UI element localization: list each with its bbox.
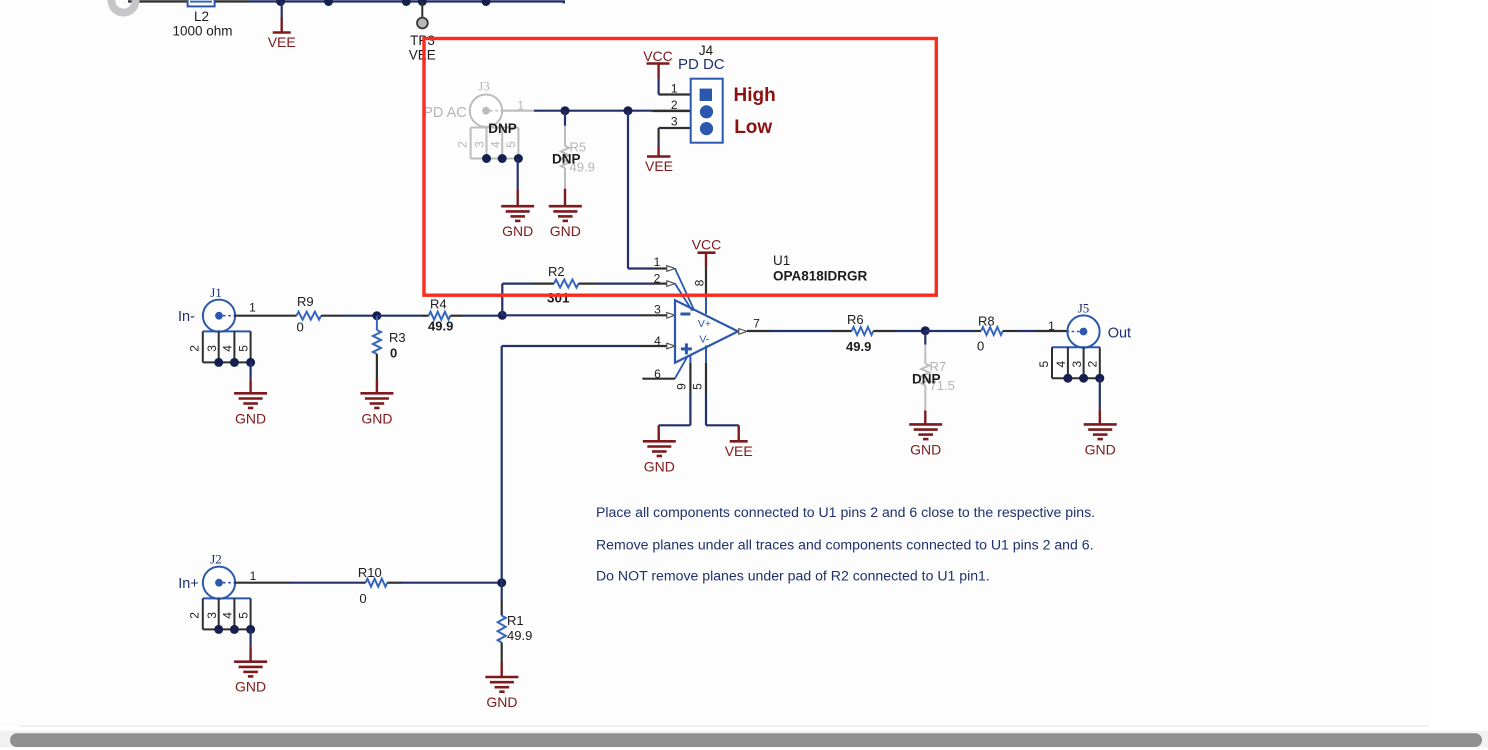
wire VEE top rail [128, 1, 565, 3]
svg-text:49.9: 49.9 [428, 319, 453, 334]
svg-text:3: 3 [654, 303, 661, 317]
label DNP (R7) [912, 372, 941, 387]
svg-text:R3: R3 [389, 330, 406, 345]
resistor R3 [373, 316, 406, 394]
wire node to U1 pin 4 [502, 346, 667, 583]
U1 pin number labels [654, 255, 761, 390]
wire PD AC net [502, 110, 691, 112]
J5 pad footprint [1037, 347, 1105, 383]
svg-text:R8: R8 [978, 314, 995, 329]
svg-text:2: 2 [654, 272, 661, 286]
power VEE (top rail) [268, 2, 296, 51]
svg-text:5: 5 [504, 141, 518, 148]
svg-text:Do NOT remove planes under pad: Do NOT remove planes under pad of R2 con… [596, 568, 990, 584]
svg-text:DNP: DNP [488, 121, 517, 136]
U1 V+ label [698, 318, 711, 330]
svg-text:8: 8 [693, 279, 707, 286]
svg-text:J3: J3 [478, 79, 490, 94]
U1 refdes [773, 253, 790, 268]
J1 pad footprint [188, 331, 256, 367]
ground (J3) [501, 206, 534, 239]
resistor R5 (DNP) [561, 111, 595, 207]
red highlight box [424, 39, 936, 296]
svg-text:5: 5 [236, 612, 250, 619]
svg-text:5: 5 [236, 345, 250, 352]
wire R9 to R3 junction [344, 315, 377, 317]
junction on top rail [324, 0, 333, 6]
svg-text:301: 301 [547, 291, 570, 306]
U1 plus symbol [681, 343, 692, 354]
wire J3 pin5 to ground [517, 159, 519, 207]
junction on top rail [276, 0, 285, 6]
resistor R10 [358, 565, 402, 606]
svg-text:2: 2 [671, 98, 678, 112]
wire U1 pin 9 to ground [659, 425, 691, 441]
svg-text:GND: GND [361, 410, 392, 426]
svg-text:In-: In- [178, 309, 195, 325]
svg-text:R6: R6 [847, 312, 864, 327]
svg-text:VEE: VEE [268, 34, 296, 50]
inductor L2 [172, 0, 232, 38]
svg-text:GND: GND [1085, 441, 1116, 457]
svg-text:3: 3 [205, 345, 219, 352]
svg-text:R2: R2 [548, 264, 565, 279]
resistor R6 [846, 312, 894, 354]
svg-text:OPA818IDRGR: OPA818IDRGR [773, 269, 868, 284]
svg-text:4: 4 [221, 345, 235, 352]
svg-text:Remove planes under all traces: Remove planes under all traces and compo… [596, 537, 1094, 553]
junction (U1 pin1 tap) [624, 106, 633, 115]
svg-text:R4: R4 [430, 297, 447, 312]
wire node to R2 [502, 284, 554, 316]
note line 2 [596, 537, 1094, 553]
resistor R2 [547, 264, 598, 306]
svg-text:1: 1 [1048, 319, 1055, 333]
svg-text:4: 4 [1054, 361, 1068, 368]
svg-text:3: 3 [473, 141, 487, 148]
resistor R4 [428, 297, 463, 334]
connector ring (cut off at top) [111, 0, 135, 13]
scrollbar thumb [10, 733, 1482, 747]
svg-text:7: 7 [753, 317, 760, 331]
svg-text:R1: R1 [507, 613, 524, 628]
svg-text:3: 3 [1070, 361, 1084, 368]
svg-text:High: High [734, 85, 776, 106]
svg-text:VCC: VCC [692, 236, 722, 252]
J3 pad footprint (DNP) [455, 128, 523, 164]
svg-text:V-: V- [699, 334, 709, 346]
ground (U1) [643, 441, 676, 474]
wire R8 to J5 [1017, 330, 1067, 332]
svg-text:1: 1 [654, 255, 661, 269]
svg-text:DNP: DNP [552, 152, 581, 167]
junction (R5 tap) [561, 106, 570, 115]
U1 pin 4 arrow [667, 343, 675, 349]
resistor R7 (DNP) [921, 331, 955, 425]
svg-text:PD DC: PD DC [678, 56, 725, 73]
svg-text:1: 1 [250, 569, 257, 583]
U1 value [773, 269, 868, 284]
label Low [734, 117, 772, 138]
ground (R3) [360, 393, 393, 426]
ground (J2) [234, 662, 267, 695]
svg-text:0: 0 [390, 346, 397, 361]
svg-text:6: 6 [654, 367, 661, 381]
svg-text:L2: L2 [194, 9, 209, 24]
svg-text:Out: Out [1108, 325, 1131, 341]
test point TP3 [409, 2, 436, 63]
label High [734, 85, 776, 106]
label DNP (J3) [488, 121, 517, 136]
wire R6 to output node [894, 330, 925, 332]
resistor R1 [498, 583, 533, 677]
svg-text:4: 4 [221, 612, 235, 619]
svg-text:Low: Low [734, 117, 772, 138]
wire U1 pin 7 to R6 [747, 330, 852, 332]
junction (non-inverting node) [497, 578, 506, 587]
svg-text:GND: GND [235, 679, 266, 695]
power VCC (U1 pin 8) [692, 236, 722, 268]
svg-text:2: 2 [455, 141, 469, 148]
connector J4 PD DC [653, 43, 725, 143]
wire node to R8 [925, 330, 981, 332]
scrollbar track [0, 731, 1488, 748]
U1 pin 6 lead [642, 378, 675, 380]
wire J5 pin5 to ground [1099, 378, 1101, 424]
svg-text:R9: R9 [297, 294, 314, 309]
wire R3 junction to R4 [377, 315, 429, 317]
junction (inverting node) [498, 311, 507, 320]
ground (R1) [485, 677, 518, 710]
svg-text:2: 2 [1086, 361, 1100, 368]
svg-text:VEE: VEE [409, 47, 436, 62]
power VEE (U1 pin 5) [706, 425, 753, 459]
svg-text:Place all components connected: Place all components connected to U1 pin… [596, 504, 1095, 520]
ground (J1) [234, 393, 267, 426]
svg-text:In+: In+ [178, 576, 199, 592]
wire J2 pin5 to ground [250, 629, 252, 661]
svg-text:GND: GND [910, 441, 941, 457]
svg-text:2: 2 [188, 345, 202, 352]
J2 pad footprint [188, 598, 256, 634]
svg-text:GND: GND [502, 223, 533, 239]
wire R4 to U1 pin3 node [463, 315, 502, 317]
ground (R7) [909, 424, 942, 457]
svg-text:R10: R10 [358, 565, 382, 580]
svg-text:GND: GND [550, 223, 581, 239]
U1 pin 8 (V+) line [705, 268, 707, 425]
wire J1 to R9 [235, 315, 297, 317]
connector J2 In+ (BNC) [178, 552, 256, 599]
svg-text:0: 0 [977, 339, 984, 354]
wire PD DC net to U1 pin 1 [628, 111, 667, 269]
U1 minus symbol [680, 313, 690, 316]
svg-text:GND: GND [644, 458, 675, 474]
junction on top rail [418, 0, 427, 6]
op-amp U1 triangle [675, 300, 738, 363]
U1 input diagonals [675, 269, 695, 379]
svg-text:49.9: 49.9 [846, 339, 871, 354]
U1 pin 3 arrow [667, 313, 675, 319]
svg-text:V+: V+ [698, 318, 711, 330]
svg-text:1: 1 [249, 300, 256, 314]
power VCC (J4) [643, 48, 673, 95]
connector J5 Out (BNC) [1048, 301, 1131, 348]
junction on top rail [402, 0, 411, 6]
svg-text:0: 0 [359, 591, 366, 606]
junction (output node) [921, 326, 930, 335]
label DNP (R5) [552, 152, 581, 167]
power VEE (J4) [645, 140, 673, 174]
wire J2 to R10 [235, 582, 366, 584]
svg-text:0: 0 [297, 320, 304, 335]
svg-text:1: 1 [671, 81, 678, 95]
wire J1 pin5 to ground [250, 362, 252, 393]
U1 pin 9 line [689, 355, 691, 425]
svg-text:5: 5 [691, 383, 705, 390]
U1 output arrow [739, 329, 747, 335]
svg-text:J5: J5 [1078, 301, 1090, 316]
U1 pin 1 arrow [667, 266, 675, 272]
svg-text:4: 4 [489, 141, 503, 148]
svg-text:1000 ohm: 1000 ohm [172, 23, 232, 38]
connector J3 PD AC (BNC, DNP) [423, 79, 524, 127]
svg-text:PD AC: PD AC [423, 105, 467, 121]
svg-text:5: 5 [1037, 361, 1051, 368]
junction on top rail [482, 0, 491, 6]
note line 3 [596, 568, 990, 584]
junction (R3 tap) [372, 311, 381, 320]
resistor R9 [297, 294, 345, 335]
svg-text:J2: J2 [210, 552, 222, 567]
ground (R5) [549, 206, 582, 239]
svg-text:GND: GND [486, 694, 517, 710]
svg-text:DNP: DNP [912, 372, 941, 387]
U1 pin 2 arrow [667, 281, 675, 287]
svg-text:VEE: VEE [725, 443, 753, 459]
svg-text:9: 9 [675, 383, 689, 390]
svg-text:3: 3 [671, 115, 678, 129]
svg-text:GND: GND [235, 410, 266, 426]
wire node to U1 pin 3 [502, 314, 666, 316]
svg-text:2: 2 [188, 612, 202, 619]
svg-text:U1: U1 [773, 253, 790, 268]
connector J1 In- (BNC) [178, 285, 256, 332]
wire R10 to R1 node [402, 582, 502, 584]
resistor R8 [977, 314, 1017, 354]
ground (J5) [1084, 424, 1117, 457]
U1 V- label [699, 334, 709, 346]
svg-text:3: 3 [205, 612, 219, 619]
svg-text:49.9: 49.9 [507, 628, 532, 643]
wire R2 to U1 pin 2 [598, 283, 667, 285]
svg-text:VCC: VCC [643, 48, 673, 64]
svg-text:VEE: VEE [645, 158, 673, 174]
svg-text:J1: J1 [210, 285, 222, 300]
note line 1 [596, 504, 1095, 520]
